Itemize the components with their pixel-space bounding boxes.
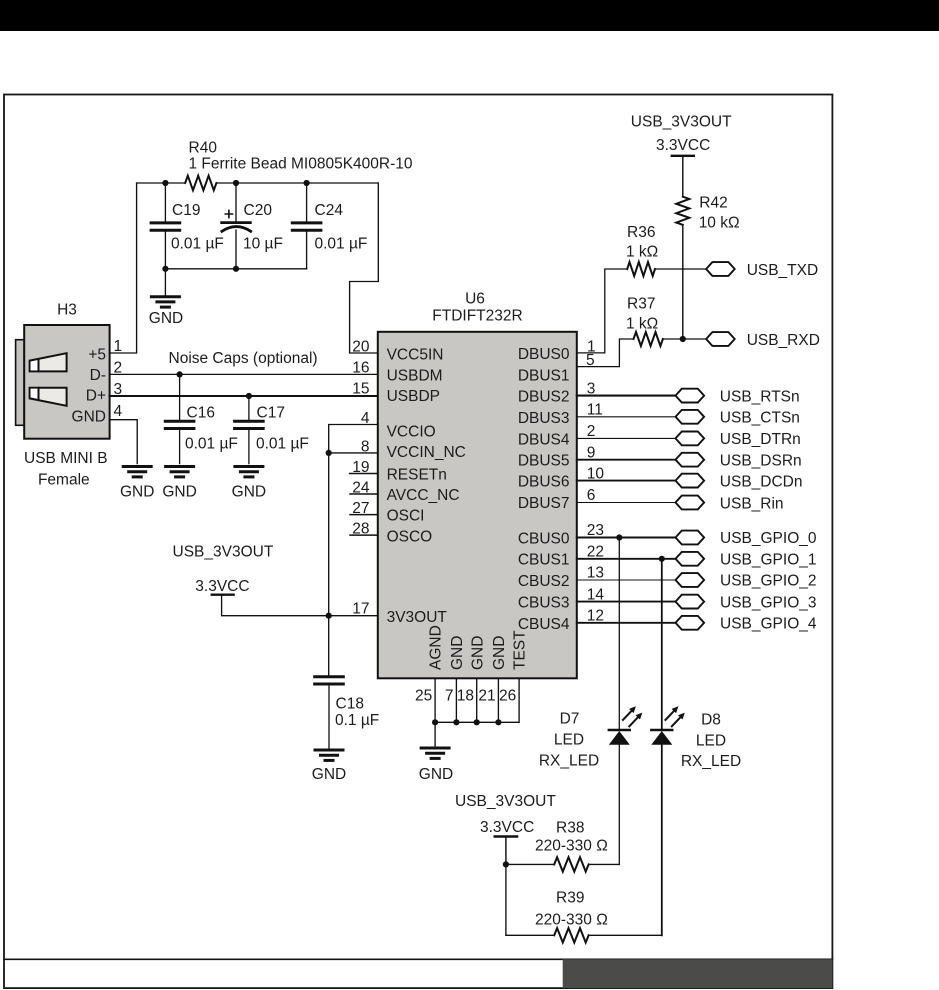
svg-text:USB_3V3OUT: USB_3V3OUT (455, 793, 556, 810)
svg-text:DBUS3: DBUS3 (518, 410, 570, 427)
svg-text:VCCIN_NC: VCCIN_NC (387, 444, 466, 461)
svg-text:22: 22 (587, 544, 604, 561)
label USB_TXD (747, 262, 819, 279)
node junction bottom bus x435 (432, 719, 438, 725)
wire top rail (137, 182, 379, 184)
pin number 19 (U6 left) (352, 459, 369, 476)
wire CBUS row pin 22 (577, 558, 676, 560)
svg-text:5: 5 (586, 352, 595, 369)
svg-text:DBUS4: DBUS4 (518, 431, 570, 448)
label LED (D8) (696, 732, 726, 749)
pin number 15 (U6 left) (352, 380, 369, 397)
node USB_DCDn port (676, 474, 705, 488)
node junction D+ C17 (246, 393, 252, 399)
svg-text:C19: C19 (172, 202, 200, 219)
svg-text:OSCI: OSCI (387, 508, 425, 525)
node USB_DSRn port (676, 453, 705, 467)
svg-text:26: 26 (499, 688, 516, 705)
svg-text:C17: C17 (257, 405, 285, 422)
svg-text:0.01 µF: 0.01 µF (185, 436, 238, 453)
pin number 27 (U6 left) (352, 500, 369, 517)
power 3.3VCC (top) (656, 137, 710, 156)
svg-text:R40: R40 (189, 139, 218, 156)
label C17 (257, 405, 285, 422)
pin number 14 (right) (587, 586, 605, 603)
wire D7 to R38 (618, 745, 620, 865)
resistor R37 (634, 332, 663, 346)
capacitor C17 (235, 396, 264, 464)
svg-text:0.1 µF: 0.1 µF (335, 712, 379, 729)
capacitor C16 (165, 374, 194, 463)
wire DBUS row pin 9 (577, 459, 676, 461)
svg-text:R37: R37 (627, 296, 655, 313)
wire R39 left (506, 934, 554, 936)
node USB_RTSn port (676, 389, 705, 403)
pin number 11 (right) (587, 402, 603, 419)
label C19 value (171, 236, 224, 253)
svg-text:D-: D- (90, 367, 106, 384)
svg-text:21: 21 (478, 688, 495, 705)
svg-text:GND: GND (120, 483, 154, 500)
wire H3 pin1 to rail (110, 183, 137, 353)
label USB_3V3OUT (top) (631, 113, 732, 130)
pin label VCC5IN (387, 347, 444, 364)
node USB_GPIO_0 port (676, 531, 705, 545)
pin label USBDP (387, 388, 440, 405)
label R38 (556, 819, 584, 836)
node junction rail-C24 (304, 180, 310, 186)
pin label RESETn (387, 466, 447, 483)
node USB_DTRn port (676, 432, 705, 446)
node junction rail-C19 (162, 180, 168, 186)
pin number 10 (right) (587, 465, 605, 482)
svg-text:18: 18 (457, 688, 474, 705)
svg-text:TEST: TEST (512, 630, 529, 670)
pin number 25 (U6 bottom) (415, 688, 432, 705)
pin number 18 (U6 bottom) (457, 688, 474, 705)
label U6 (465, 291, 485, 308)
resistor R38 (554, 857, 588, 871)
node USB_GPIO_2 port (676, 573, 705, 587)
svg-text:D8: D8 (701, 711, 721, 728)
node junction CBUS1-D8 (659, 556, 665, 562)
ground (C18) (315, 750, 343, 760)
pin label CBUS0 (518, 530, 570, 547)
pin number 28 (U6 left) (352, 520, 369, 537)
label GND (C16) (162, 483, 196, 500)
pin label GND (vertical) (449, 636, 466, 670)
svg-text:USBDP: USBDP (387, 388, 440, 405)
wire DBUS row pin 11 (577, 416, 676, 418)
svg-text:R36: R36 (627, 224, 655, 241)
label LED (D7) (554, 732, 584, 749)
pin label 3V3OUT (387, 609, 448, 626)
svg-text:Noise Caps (optional): Noise Caps (optional) (169, 350, 318, 367)
svg-text:USB_DTRn: USB_DTRn (720, 431, 801, 448)
pin number 3 (right) (587, 380, 596, 397)
ground (filter caps) (151, 297, 179, 307)
pin number 8 (U6 left) (361, 438, 370, 455)
svg-text:R42: R42 (699, 195, 727, 212)
svg-text:LED: LED (696, 732, 726, 749)
pin label DBUS2 (518, 388, 570, 405)
node USB_GPIO_4 port (676, 616, 705, 630)
pin number 26 (U6 bottom) (499, 688, 516, 705)
svg-text:D+: D+ (86, 388, 106, 405)
svg-text:USB_RTSn: USB_RTSn (720, 388, 800, 405)
svg-text:DBUS7: DBUS7 (518, 495, 570, 512)
pin number 6 (right) (587, 487, 596, 504)
svg-text:4: 4 (361, 410, 370, 427)
pin label GND (vertical) (491, 636, 508, 670)
svg-text:USB MINI B: USB MINI B (24, 450, 108, 467)
svg-text:CBUS4: CBUS4 (518, 616, 570, 633)
wire bottom rail (165, 268, 306, 270)
label R40 value (189, 156, 413, 173)
label C19 (172, 202, 200, 219)
pin label DBUS6 (518, 474, 570, 491)
label USB_3V3OUT (left) (173, 543, 274, 560)
svg-text:8: 8 (361, 438, 370, 455)
resistor R36 (627, 262, 655, 276)
LED D8 (651, 706, 685, 745)
svg-text:GND: GND (419, 766, 453, 783)
label RX_LED (D7) (539, 753, 599, 770)
connector H3 upper contact (30, 353, 67, 371)
label USB_GPIO_3 (720, 594, 817, 611)
label GND (filter caps) (149, 310, 183, 327)
power 3.3VCC (bottom) (480, 819, 534, 836)
ground (U6) (421, 748, 449, 758)
wire D8 to R39 (661, 745, 663, 936)
pin number 9 (right) (587, 444, 596, 461)
label FTDIFT232R (432, 308, 522, 325)
svg-text:25: 25 (415, 688, 432, 705)
svg-text:10: 10 (587, 465, 605, 482)
pin label USBDM (387, 367, 443, 384)
pin number 24 (U6 left) (352, 479, 370, 496)
wire D+ net (110, 395, 378, 397)
pin label CBUS1 (518, 552, 570, 569)
node USB_TXD port (706, 262, 735, 276)
svg-text:3: 3 (587, 380, 596, 397)
svg-text:USB_GPIO_0: USB_GPIO_0 (720, 530, 817, 547)
pin label CBUS4 (518, 616, 570, 633)
svg-text:12: 12 (587, 608, 604, 625)
pin label OSCI (387, 508, 425, 525)
node junction bottom bus x456 (453, 719, 459, 725)
label GND (C18) (312, 766, 346, 783)
label C20 value (243, 236, 283, 253)
svg-text:USB_GPIO_2: USB_GPIO_2 (720, 573, 817, 590)
wire DBUS row pin 3 (577, 395, 676, 397)
pin label DBUS0 (518, 346, 570, 363)
wire R38 left (506, 863, 554, 865)
svg-text:14: 14 (587, 586, 605, 603)
svg-text:USB_CTSn: USB_CTSn (720, 410, 800, 427)
pin number 2 (H3) (114, 360, 123, 377)
pin number 21 (U6 bottom) (478, 688, 495, 705)
pin label DBUS7 (518, 495, 570, 512)
pin stubs bottom (AGND/GND/TEST) (435, 678, 519, 722)
svg-text:0.01 µF: 0.01 µF (256, 436, 309, 453)
svg-text:16: 16 (352, 360, 369, 377)
svg-text:DBUS0: DBUS0 (518, 346, 570, 363)
node USB_CTSn port (676, 410, 705, 424)
node junction bottom-C19 (162, 266, 168, 272)
pin label +5 (88, 347, 106, 364)
svg-text:U6: U6 (465, 291, 485, 308)
wire DBUS row pin 2 (577, 437, 676, 439)
frame footer divider (4, 958, 832, 960)
svg-text:10 kΩ: 10 kΩ (699, 214, 740, 231)
label USB_GPIO_4 (720, 616, 817, 633)
pin label D- (90, 367, 106, 384)
node junction bottom-C20 (233, 266, 239, 272)
pin number 4 (U6 left) (361, 410, 370, 427)
label USB_DCDn (720, 473, 803, 490)
node junction rail-C20 (233, 180, 239, 186)
svg-text:GND: GND (149, 310, 183, 327)
svg-text:DBUS5: DBUS5 (518, 453, 570, 470)
pin number 1 (DBUS0) (587, 338, 596, 355)
node junction bottom bus x476 (474, 719, 480, 725)
resistor R42 (676, 197, 689, 225)
pin number 4 (H3) (114, 403, 123, 420)
svg-text:2: 2 (587, 423, 596, 440)
node USB_Rin port (676, 496, 705, 510)
ground (C17) (235, 467, 263, 477)
svg-text:GND: GND (449, 636, 466, 670)
wire R36 to USB_TXD (655, 268, 706, 270)
wire DBUS1 to R37 (577, 339, 634, 367)
ground (C16) (166, 467, 194, 477)
label USB_CTSn (720, 410, 800, 427)
pin number 2 (right) (587, 423, 596, 440)
wire CBUS row pin 14 (577, 601, 676, 603)
connector H3 lower contact (30, 388, 67, 406)
pin number 1 (H3) (114, 338, 123, 355)
label C18 (336, 695, 364, 712)
node USB_GPIO_3 port (676, 595, 705, 609)
label R38 value (535, 837, 608, 854)
svg-text:CBUS1: CBUS1 (518, 552, 570, 569)
label C16 (187, 405, 215, 422)
svg-text:RESETn: RESETn (387, 466, 447, 483)
pin stubs 19/24/27/28 (350, 474, 378, 536)
resistor R40 (ferrite bead) (185, 176, 216, 191)
capacitor C18 (315, 677, 344, 748)
svg-text:C18: C18 (336, 695, 364, 712)
pin label VCCIN_NC (387, 444, 466, 461)
svg-text:11: 11 (587, 402, 603, 419)
label R42 (699, 195, 727, 212)
svg-text:GND: GND (312, 766, 346, 783)
svg-text:FTDIFT232R: FTDIFT232R (432, 308, 522, 325)
svg-text:LED: LED (554, 732, 584, 749)
LED D7 (609, 706, 643, 745)
label R39 (556, 889, 584, 906)
node junction CBUS0-D7 (616, 534, 622, 540)
label Female (38, 471, 90, 488)
wire H3 pin4 to ground (110, 420, 138, 464)
wire CBUS0 to D7 (618, 538, 620, 730)
node USB_GPIO_1 port (676, 552, 705, 566)
svg-text:USB_GPIO_1: USB_GPIO_1 (720, 552, 817, 569)
label USB_RTSn (720, 388, 800, 405)
svg-text:AGND: AGND (428, 625, 445, 670)
capacitor C20 (polarized) (222, 183, 251, 269)
svg-text:AVCC_NC: AVCC_NC (387, 487, 460, 504)
svg-text:+5: +5 (88, 347, 106, 364)
label R36 (627, 224, 655, 241)
svg-text:9: 9 (587, 444, 596, 461)
resistor R39 (554, 928, 588, 942)
svg-text:R39: R39 (556, 889, 584, 906)
label Noise Caps (optional) (169, 350, 318, 367)
svg-text:3V3OUT: 3V3OUT (387, 609, 448, 626)
svg-text:DBUS6: DBUS6 (518, 474, 570, 491)
wire GND drop (164, 269, 166, 295)
svg-text:CBUS3: CBUS3 (518, 595, 570, 612)
pin number 3 (H3) (114, 381, 123, 398)
svg-text:0.01 µF: 0.01 µF (315, 236, 368, 253)
svg-text:10 µF: 10 µF (243, 236, 283, 253)
node junction 3.3VCC-R38 (503, 861, 509, 867)
svg-text:0.01 µF: 0.01 µF (171, 236, 224, 253)
svg-text:USB_TXD: USB_TXD (747, 262, 819, 279)
svg-text:USB_3V3OUT: USB_3V3OUT (173, 543, 274, 560)
schematic frame (4, 95, 832, 989)
svg-text:3.3VCC: 3.3VCC (656, 137, 710, 154)
label C17 value (256, 436, 309, 453)
svg-text:15: 15 (352, 380, 369, 397)
pin label CBUS3 (518, 595, 570, 612)
label R42 value (699, 214, 740, 231)
svg-text:RX_LED: RX_LED (681, 753, 741, 770)
pin label DBUS4 (518, 431, 570, 448)
node junction VCCIN_NC (326, 450, 332, 456)
svg-text:VCCIO: VCCIO (387, 424, 436, 441)
pin label AVCC_NC (387, 487, 460, 504)
pin label VCCIO (387, 424, 436, 441)
pin label CBUS2 (518, 573, 570, 590)
label GND (U6) (419, 766, 453, 783)
wire AGND to ground (434, 722, 436, 746)
node junction R42-RXD (680, 336, 686, 342)
node USB_RXD port (706, 332, 735, 346)
label R37 (627, 296, 655, 313)
label GND (C17) (232, 483, 266, 500)
svg-text:USB_DSRn: USB_DSRn (720, 453, 802, 470)
svg-text:USB_RXD: USB_RXD (747, 332, 820, 349)
label RX_LED (D8) (681, 753, 741, 770)
connector H3 body (24, 325, 109, 439)
pin label DBUS3 (518, 410, 570, 427)
power 3.3VCC (left) (195, 578, 249, 595)
svg-text:1 kΩ: 1 kΩ (626, 316, 658, 333)
svg-text:GND: GND (491, 636, 508, 670)
pin label DBUS1 (518, 367, 570, 384)
label USB_GPIO_0 (720, 530, 817, 547)
label R39 value (535, 911, 608, 928)
svg-text:USB_GPIO_3: USB_GPIO_3 (720, 594, 817, 611)
label C24 value (315, 236, 368, 253)
svg-text:Female: Female (38, 471, 90, 488)
node junction D- C16 (177, 371, 183, 377)
wire 3.3VCC to 3V3OUT (222, 596, 378, 616)
pin number 17 (352, 601, 369, 618)
label C16 value (185, 436, 238, 453)
wire 3.3VCC to R42 (682, 157, 684, 197)
wire CBUS row pin 12 (577, 622, 676, 624)
svg-text:220-330 Ω: 220-330 Ω (535, 911, 608, 928)
svg-text:GND: GND (469, 636, 486, 670)
svg-text:VCC5IN: VCC5IN (387, 347, 444, 364)
pin label OSCO (387, 529, 433, 546)
label GND (H3 pin4) (120, 483, 154, 500)
pin number 7 (U6 bottom) (445, 688, 454, 705)
pin label AGND (vertical) (428, 625, 445, 670)
svg-text:C20: C20 (244, 202, 273, 219)
svg-text:CBUS2: CBUS2 (518, 573, 570, 590)
svg-text:13: 13 (587, 565, 604, 582)
svg-text:3.3VCC: 3.3VCC (195, 578, 249, 595)
svg-text:USB_DCDn: USB_DCDn (720, 473, 803, 490)
label R37 value (626, 316, 658, 333)
wire R39 to D8 (589, 934, 662, 936)
svg-text:7: 7 (445, 688, 454, 705)
pin label GND (vertical) (469, 636, 486, 670)
label USB MINI B (24, 450, 108, 467)
wire rail to U6 pin 20 (350, 183, 379, 353)
label USB_Rin (720, 495, 784, 512)
svg-text:H3: H3 (57, 302, 77, 319)
label C18 value (335, 712, 379, 729)
svg-text:C24: C24 (315, 202, 344, 219)
pin label TEST (vertical) (512, 630, 529, 670)
svg-text:USB_3V3OUT: USB_3V3OUT (631, 113, 732, 130)
svg-text:1 Ferrite Bead MI0805K400R-10: 1 Ferrite Bead MI0805K400R-10 (189, 156, 413, 173)
label D7 (560, 710, 580, 727)
label USB_GPIO_1 (720, 552, 817, 569)
pin number 5 (DBUS1) (586, 352, 595, 369)
label USB_DSRn (720, 453, 802, 470)
label D8 (701, 711, 721, 728)
label USB_RXD (747, 332, 820, 349)
svg-text:20: 20 (352, 339, 370, 356)
wire R38 to D7 (589, 863, 620, 865)
svg-text:GND: GND (162, 483, 196, 500)
label R40 (189, 139, 218, 156)
svg-text:17: 17 (352, 601, 369, 618)
wire junction down to R39 (505, 864, 507, 935)
svg-text:3.3VCC: 3.3VCC (480, 819, 534, 836)
pin label DBUS5 (518, 453, 570, 470)
top black banner (0, 0, 939, 31)
svg-text:USB_Rin: USB_Rin (720, 495, 784, 512)
svg-text:USBDM: USBDM (387, 367, 443, 384)
wire CBUS row pin 23 (577, 537, 676, 539)
svg-text:GND: GND (232, 483, 266, 500)
label USB_DTRn (720, 431, 801, 448)
wire DBUS row pin 6 (577, 502, 676, 504)
footer dark block (563, 959, 833, 988)
wire R37 to USB_RXD (663, 338, 706, 340)
svg-text:4: 4 (114, 403, 123, 420)
op-amp U6 body (378, 332, 577, 679)
wire DBUS0 to R36 (577, 269, 627, 353)
